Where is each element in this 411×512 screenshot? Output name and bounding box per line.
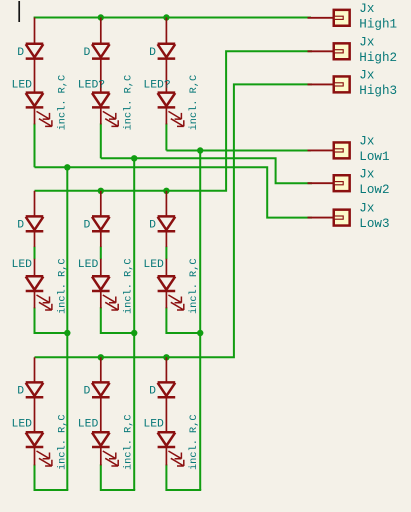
wire pin LED cathode r3c1 [34,447,36,465]
svg-text:D: D [84,219,91,231]
wire net LOW3 row2 LED drop [35,307,68,333]
wire net LOW2 vertical rail [133,158,135,490]
wire pin D cathode to LED anode r3c2 [100,397,102,432]
svg-text:LED: LED [12,259,33,271]
sheet frame edge [18,1,20,22]
wire pin D cathode to LED anode r1c1 [34,59,36,93]
junction LOW1 rail top [197,147,203,153]
wire pin D cathode to LED anode r2c1 [34,231,36,247]
LED LED (cell r2c2) [92,275,110,278]
svg-text:D: D [17,385,24,397]
wire pin diode D r3c2 anode [100,357,102,382]
wire pin LED cathode r1c2 [100,108,102,125]
svg-text:incl. R,C: incl. R,C [56,258,68,314]
LED LED (cell r1c1) [26,91,44,94]
wire stub to Jx High3 [308,83,334,85]
wire stub to Jx Low3 [308,217,334,219]
wire pin D cathode to LED anode r2c2 [100,231,102,247]
connector Jx Low3 [334,210,350,226]
svg-text:LED: LED [78,419,99,431]
wire short net between D and LED row2 [165,247,167,260]
junction LOW3 rail row2 [64,330,70,336]
svg-text:D: D [17,219,24,231]
junction HIGH1/col2 [98,14,104,20]
svg-text:Jx: Jx [359,167,374,181]
svg-text:D: D [149,385,156,397]
LED LED (cell r2c1) [26,275,44,278]
svg-text:Jx: Jx [359,135,374,149]
svg-text:LED: LED [143,259,164,271]
wire net LOW1 row2 LED drop [166,307,200,333]
wire net LOW2 horizontal + drop to connector [101,158,312,183]
svg-text:incl. R,C: incl. R,C [188,75,200,131]
svg-text:D: D [149,219,156,231]
diode D (cell r1c1) [26,43,44,46]
junction HIGH1/col3 [163,14,169,20]
svg-text:incl. R,C: incl. R,C [56,414,68,470]
wire short net between D and LED row2 [100,247,102,260]
wire net LOW1 row3 LED drop [166,464,200,490]
wire pin LED cathode r2c2 [100,291,102,308]
svg-text:Low1: Low1 [359,150,389,164]
svg-text:High1: High1 [359,17,397,31]
junction LOW2 rail top [131,155,137,161]
svg-text:D: D [84,47,91,59]
wire pin LED cathode r3c2 [100,447,102,465]
diode D (cell r2c1) [26,215,44,218]
wire stub to Jx Low2 [308,182,334,184]
wire pin D cathode to LED anode r3c3 [165,397,167,432]
connector Jx High2 [334,43,350,59]
svg-text:LED: LED [12,79,33,91]
connector Jx High1 [334,10,350,26]
wire pin diode D r3c3 anode [165,357,167,382]
svg-text:Low2: Low2 [359,183,389,197]
wire net LOW1 horizontal to connector [166,150,311,152]
LED LED (cell r3c3) [158,431,176,434]
wire stub to Jx High1 [308,17,334,19]
svg-text:incl. R,C: incl. R,C [188,258,200,314]
wire net HIGH3 bus and riser [35,84,313,357]
wire stub to Jx High2 [308,50,334,52]
wire pin LED cathode r3c3 [165,447,167,465]
connector Jx Low1 [334,142,350,158]
wire pin LED cathode r2c3 [165,291,167,308]
wire pin diode D r1c2 anode [100,18,102,44]
wire pin diode D r2c3 anode [165,191,167,216]
wire pin D cathode to LED anode r2c3 [165,231,167,247]
junction LOW1 rail row2 [197,330,203,336]
wire short net between D and LED row2 [34,247,36,260]
wire net LOW2 row1 LED drop [100,123,102,158]
wire net LOW1 row1 LED drop [165,123,167,150]
svg-text:D: D [84,385,91,397]
wire pin diode D r2c2 anode [100,191,102,216]
wire pin diode D r3c1 anode [34,357,36,382]
diode D (cell r3c2) [92,381,110,384]
wire net HIGH2 bus and riser [35,51,313,191]
svg-text:D: D [149,47,156,59]
svg-text:High3: High3 [359,84,397,98]
svg-text:Jx: Jx [359,2,374,16]
diode D (cell r1c2) [92,43,110,46]
LED LED? (cell r1c2) [92,91,110,94]
svg-text:LED: LED [12,419,33,431]
diode D (cell r1c3) [158,43,176,46]
svg-text:Jx: Jx [359,69,374,83]
junction LOW3 rail top [64,164,70,170]
LED LED (cell r2c3) [158,275,176,278]
svg-text:LED: LED [78,259,99,271]
wire pin D cathode to LED anode r1c3 [165,59,167,93]
diode D (cell r2c2) [92,215,110,218]
LED LED? (cell r1c3) [158,91,176,94]
svg-text:Jx: Jx [359,202,374,216]
svg-text:incl. R,C: incl. R,C [188,414,200,470]
diode D (cell r2c3) [158,215,176,218]
svg-text:High2: High2 [359,51,397,65]
diode D (cell r3c1) [26,381,44,384]
svg-text:D: D [17,47,24,59]
wire net LOW2 row3 LED drop [101,464,134,490]
wire net LOW3 vertical rail [66,167,68,490]
svg-text:LED?: LED? [143,79,170,91]
junction HIGH2/col2 [98,188,104,194]
wire pin D cathode to LED anode r3c1 [34,397,36,432]
wire pin diode D r2c1 anode [34,191,36,216]
junction LOW2 rail row2 [131,330,137,336]
svg-text:incl. R,C: incl. R,C [123,75,135,131]
wire net LOW3 horizontal + drop to connector [35,167,313,217]
svg-text:incl. R,C: incl. R,C [123,414,135,470]
wire pin LED cathode r1c3 [165,108,167,125]
wire pin D cathode to LED anode r1c2 [100,59,102,93]
svg-text:LED: LED [143,419,164,431]
wire pin diode D r1c1 anode [34,18,36,44]
wire net LOW3 row3 LED drop [35,464,68,490]
LED LED (cell r3c1) [26,431,44,434]
diode D (cell r3c3) [158,381,176,384]
svg-text:Low3: Low3 [359,217,389,231]
svg-text:LED?: LED? [78,79,105,91]
wire pin diode D r1c3 anode [165,18,167,44]
LED LED (cell r3c2) [92,431,110,434]
wire net LOW1 vertical rail [199,151,201,491]
wire net LOW3 row1 LED drop [34,123,36,167]
wire net HIGH1 horizontal bus [34,17,311,19]
junction HIGH3/col3 [163,354,169,360]
connector Jx High3 [334,76,350,92]
svg-text:incl. R,C: incl. R,C [56,75,68,131]
wire net LOW2 row2 LED drop [101,307,134,333]
wire pin LED cathode r2c1 [34,291,36,308]
svg-text:incl. R,C: incl. R,C [123,258,135,314]
junction HIGH2/col3 [163,188,169,194]
svg-text:Jx: Jx [359,35,374,49]
connector Jx Low2 [334,175,350,191]
wire stub to Jx Low1 [308,149,334,151]
junction HIGH3/col2 [98,354,104,360]
wire pin LED cathode r1c1 [34,108,36,125]
